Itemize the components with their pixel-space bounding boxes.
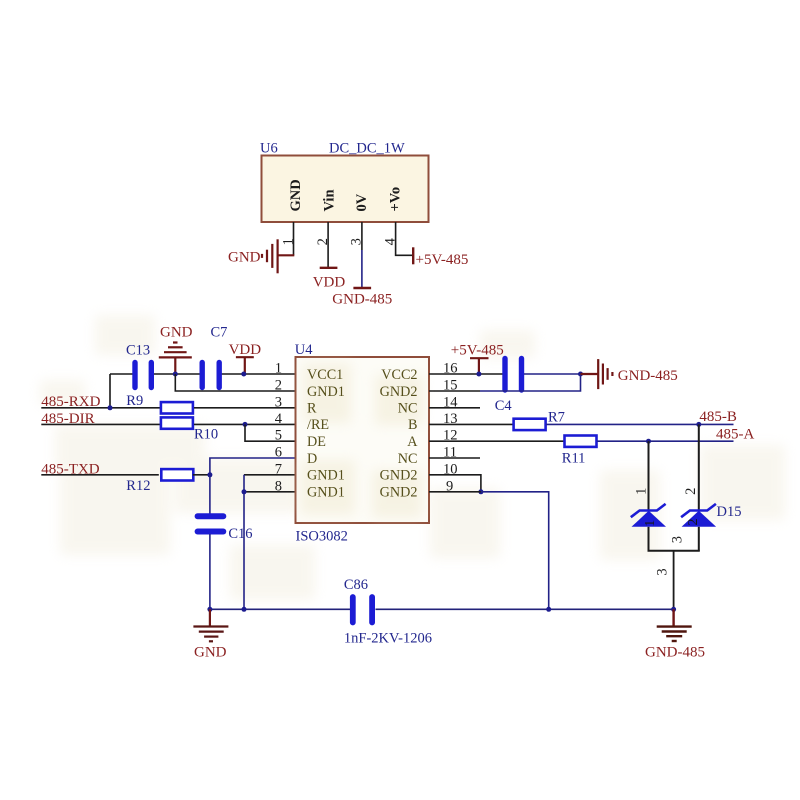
- wire C16 down to ground rail: [209, 534, 211, 609]
- resistor R12 body: [161, 469, 193, 480]
- svg-text:NC: NC: [398, 451, 418, 467]
- wire 485-RXD to R9: [41, 407, 160, 409]
- wire diode 1 anode down: [648, 527, 650, 551]
- svg-text:D15: D15: [717, 504, 742, 520]
- svg-text:GND2: GND2: [380, 468, 418, 484]
- U6 pin 1 lead wire: [293, 222, 295, 255]
- wire U4 pin 13 B to R7: [429, 423, 513, 425]
- wire R7 to 485-B: [546, 423, 733, 425]
- ground symbol GND at U6 pin 1: [262, 239, 294, 273]
- svg-text:3: 3: [655, 568, 671, 575]
- wire U4 pin 16 VCC2 to C4: [429, 373, 503, 375]
- resistor R10 body: [161, 417, 193, 428]
- power bar VDD at U6 pin 2: [320, 267, 338, 269]
- junction dot at GND/C13/C7: [173, 372, 178, 377]
- ground symbol GND bottom left: [193, 609, 228, 641]
- wire U4 pin 15 GND2: [429, 390, 480, 392]
- wire junction down to C16: [209, 475, 211, 514]
- capacitor C86 plates: [353, 597, 372, 623]
- wire diode common down to ground rail: [673, 551, 675, 610]
- svg-text:GND1: GND1: [307, 468, 345, 484]
- svg-text:ISO3082: ISO3082: [296, 529, 348, 545]
- wire VCC1 row between C13 and C7: [153, 373, 202, 375]
- svg-text:GND-485: GND-485: [645, 645, 705, 661]
- svg-text:DC_DC_1W: DC_DC_1W: [329, 141, 405, 157]
- TVS diode D15 element 1 triangle: [632, 511, 667, 527]
- resistor R11 body: [565, 436, 597, 447]
- wire VCC1 row left of C13: [110, 373, 134, 375]
- power bar +5V-485 at pin 16: [470, 358, 489, 373]
- svg-text:GND2: GND2: [380, 384, 418, 400]
- svg-text:R: R: [307, 401, 317, 417]
- svg-text:+Vo: +Vo: [387, 187, 403, 212]
- junction dot GND2 at rail: [546, 607, 551, 612]
- svg-text:B: B: [408, 417, 417, 433]
- junction dot at VDD / pin1 wire: [241, 372, 246, 377]
- svg-text:VDD: VDD: [313, 275, 346, 291]
- wire diode 2 anode down: [698, 527, 700, 551]
- svg-text:3: 3: [275, 394, 282, 410]
- svg-text:GND: GND: [288, 179, 304, 211]
- svg-text:/RE: /RE: [307, 417, 329, 433]
- wire U4 pin 9 GND2 down to rail: [429, 491, 481, 493]
- junction dot 485-RXD branch: [108, 405, 113, 410]
- svg-text:VCC2: VCC2: [381, 367, 417, 383]
- wire pins 7-8 vertical down to ground rail: [243, 475, 245, 610]
- TVS diode D15 element 2 triangle: [682, 511, 717, 527]
- svg-text:R12: R12: [126, 478, 150, 494]
- U6 pin 3 lead wire lower segment: [361, 250, 363, 287]
- svg-text:VCC1: VCC1: [307, 367, 343, 383]
- wire diode common rail: [648, 550, 700, 552]
- svg-text:C13: C13: [126, 343, 150, 359]
- svg-text:+5V-485: +5V-485: [451, 343, 504, 359]
- svg-text:GND: GND: [160, 325, 193, 341]
- wire 485-DIR to R10: [41, 423, 160, 425]
- svg-text:U4: U4: [295, 342, 313, 358]
- svg-text:1: 1: [633, 488, 649, 495]
- svg-text:R7: R7: [548, 410, 565, 426]
- wire DIR branch down to U4 pin 5: [245, 424, 296, 441]
- wire C4 to ground junction: [524, 373, 581, 375]
- junction dot +5V at pin 16 wire: [476, 372, 481, 377]
- wire VCC1 row from C7 to U4 pin 1: [221, 373, 296, 375]
- capacitor C13 plates: [135, 363, 151, 388]
- svg-text:485-A: 485-A: [716, 427, 754, 443]
- wire 485-A branch down to D15 diode 1: [648, 441, 650, 510]
- svg-text:+5V-485: +5V-485: [416, 252, 469, 268]
- svg-text:U6: U6: [260, 141, 278, 157]
- svg-text:2: 2: [275, 378, 282, 394]
- wire 485-B branch down to D15 diode 2: [698, 424, 700, 510]
- ground symbol GND-485 right of C4: [581, 359, 613, 389]
- resistor R7 body: [514, 419, 546, 430]
- capacitor C7 plates: [202, 363, 219, 388]
- svg-text:7: 7: [275, 461, 282, 477]
- svg-text:2: 2: [683, 488, 699, 495]
- wire R9 to U4 pin 3: [194, 407, 296, 409]
- svg-text:C4: C4: [495, 398, 513, 414]
- junction dot 485-B: [696, 422, 701, 427]
- svg-text:0V: 0V: [354, 193, 370, 211]
- wire U4 pin 12 A to R11: [429, 440, 564, 442]
- wire U4 pin 11 NC stub: [429, 457, 480, 459]
- junction dot ground rail right end: [671, 607, 676, 612]
- svg-text:8: 8: [275, 478, 282, 494]
- svg-text:A: A: [407, 434, 418, 450]
- svg-text:D: D: [307, 451, 317, 467]
- U6 pin 4 lead wire: [396, 222, 413, 255]
- wire R12 to junction: [193, 474, 210, 476]
- svg-text:GND1: GND1: [307, 485, 345, 501]
- svg-text:R9: R9: [126, 393, 143, 409]
- power bar VDD above pin 1 wire: [236, 357, 254, 373]
- ground symbol GND-485 bottom right: [657, 609, 692, 641]
- power bar +5V-485 at U6 pin 4: [412, 247, 414, 264]
- wire U4 pin 10 GND2: [429, 475, 481, 492]
- junction dot rail at pins 7-8 branch: [242, 607, 247, 612]
- ground rail wire left segment: [210, 608, 350, 610]
- svg-text:R11: R11: [562, 451, 586, 467]
- capacitor C4 plates: [505, 359, 522, 391]
- junction dot pins 9-10: [478, 489, 483, 494]
- IC U4 ISO3082 body: [296, 357, 430, 523]
- svg-text:4: 4: [275, 411, 283, 427]
- wire R11 to 485-A: [597, 440, 733, 442]
- svg-text:2: 2: [686, 519, 701, 526]
- wire 485-TXD to R12: [41, 474, 159, 476]
- svg-text:6: 6: [275, 445, 282, 461]
- wire R10 to U4 pin 4: [194, 423, 296, 425]
- svg-text:C86: C86: [344, 577, 368, 593]
- svg-text:GND-485: GND-485: [618, 368, 678, 384]
- wire vertical from C13 branch down to 485-RXD: [109, 374, 111, 408]
- IC U6 DC_DC_1W module body: [262, 156, 429, 223]
- U6 pin 3 lead wire: [361, 222, 363, 250]
- wire U4 pin 8 GND1: [244, 491, 296, 493]
- svg-text:GND2: GND2: [380, 485, 418, 501]
- svg-text:1: 1: [275, 361, 282, 377]
- junction dot TXD/C16: [207, 472, 212, 477]
- TVS diode D15 element 2 cathode bar: [681, 504, 716, 517]
- U6 pin 2 lead wire: [327, 222, 329, 267]
- svg-text:5: 5: [275, 428, 282, 444]
- wire U4 pin 14 NC stub: [429, 407, 480, 409]
- capacitor C16 plates: [198, 516, 224, 531]
- svg-text:VDD: VDD: [229, 342, 262, 358]
- ground rail wire right segment: [376, 608, 674, 610]
- svg-text:C16: C16: [228, 526, 252, 542]
- svg-text:Vin: Vin: [322, 189, 338, 211]
- svg-text:485-B: 485-B: [699, 409, 737, 425]
- svg-text:1: 1: [643, 520, 658, 527]
- resistor R9 body: [161, 402, 193, 413]
- svg-text:C7: C7: [211, 325, 228, 341]
- power bar GND-485 at U6 pin 3: [353, 287, 371, 289]
- svg-text:GND: GND: [228, 250, 261, 266]
- svg-text:DE: DE: [307, 434, 326, 450]
- junction dot pins 7-8: [242, 489, 247, 494]
- junction dot DIR branch: [243, 422, 248, 427]
- TVS diode D15 element 1 cathode bar: [631, 504, 666, 517]
- svg-text:NC: NC: [398, 401, 418, 417]
- svg-text:GND1: GND1: [307, 384, 345, 400]
- junction dot C4 / GND2: [578, 372, 583, 377]
- svg-text:GND-485: GND-485: [332, 291, 392, 307]
- svg-text:GND: GND: [194, 645, 227, 661]
- ground symbol above C13/C7 junction: [159, 343, 192, 374]
- wire junction up to U4 pin 6 D: [210, 458, 296, 475]
- junction dot 485-A: [646, 439, 651, 444]
- svg-text:1nF-2KV-1206: 1nF-2KV-1206: [344, 631, 432, 647]
- svg-text:R10: R10: [194, 427, 218, 443]
- svg-text:3: 3: [669, 536, 685, 543]
- wire U4 pin 7 GND1: [244, 474, 296, 476]
- junction dot rail at C16 branch: [207, 607, 212, 612]
- wire GND1 pin 2 from junction: [175, 374, 295, 391]
